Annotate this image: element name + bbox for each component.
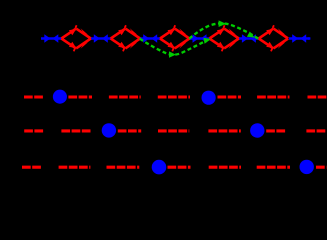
bond B5 (trailing)	[289, 34, 310, 43]
row3 segment e	[209, 166, 241, 169]
row1 segment e	[218, 95, 242, 98]
bond B4	[239, 34, 260, 43]
bond B0 (leading)	[41, 34, 62, 43]
row2 segment c	[118, 129, 141, 132]
diamond P3	[160, 25, 189, 51]
green CLS path A (under diamond P3)	[140, 39, 210, 55]
arrow on path A at trough	[169, 51, 176, 57]
arrow on path B at peak	[219, 20, 226, 27]
row3 segment c	[107, 166, 140, 169]
row1 segment c	[109, 95, 141, 98]
bond B3	[189, 34, 210, 43]
diamond P1	[61, 25, 90, 51]
row1 segment f	[257, 95, 289, 98]
bond B1	[91, 34, 112, 43]
row3 segment f	[257, 166, 290, 169]
row1 particle 1	[53, 90, 67, 104]
row3 segment d	[168, 166, 191, 169]
diamond P5	[259, 25, 288, 51]
row2 segment a	[24, 129, 44, 132]
row3 segment a	[22, 166, 42, 169]
row1 segment a	[24, 95, 44, 98]
green CLS path B (over diamond P4)	[189, 23, 259, 39]
arrow on path B near end	[247, 32, 255, 38]
row3 particle 2	[300, 160, 314, 174]
diamond P4	[209, 25, 238, 51]
arrow on path A at end	[203, 38, 211, 44]
row3 particle 1	[152, 160, 167, 175]
row2 particle 2	[250, 123, 264, 137]
row2 segment g	[306, 129, 326, 132]
row2 segment d	[158, 129, 189, 132]
row1 segment g	[308, 95, 327, 98]
row2 particle 1	[102, 123, 116, 137]
row1 segment b	[68, 95, 92, 98]
row1 particle 2	[202, 91, 216, 105]
row2 segment b	[61, 129, 92, 132]
row2 segment e	[208, 129, 240, 132]
row3 segment g	[316, 166, 327, 169]
row2 segment f	[266, 129, 286, 132]
row1 segment d	[158, 95, 190, 98]
wire stub at trailing bond end	[308, 37, 310, 39]
bond B2	[140, 34, 161, 43]
row3 segment b	[59, 166, 91, 169]
diamond P2	[111, 25, 140, 51]
